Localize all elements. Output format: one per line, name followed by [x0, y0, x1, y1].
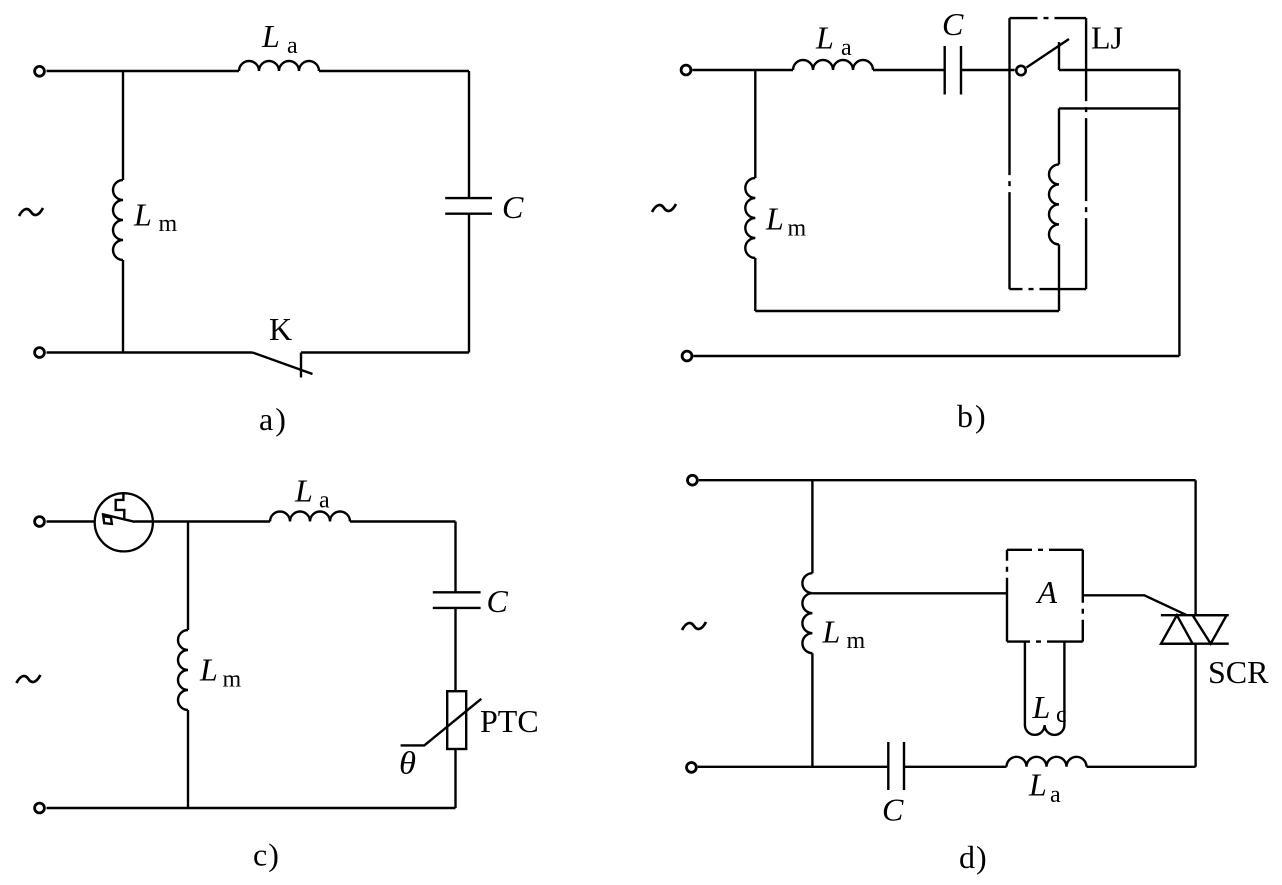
switch K (a) [253, 353, 313, 378]
wire [122, 260, 124, 353]
wire [755, 310, 1059, 312]
AC source tilde (b) [652, 204, 676, 212]
terminal b-bottom [682, 351, 692, 361]
wire [1194, 644, 1196, 767]
wire right rail (b) [1178, 70, 1180, 356]
wire [350, 520, 456, 522]
wire [187, 522, 189, 631]
wire [754, 70, 756, 178]
inductor La (b) [793, 60, 873, 70]
inductor La (a) [239, 61, 319, 71]
inductor Lm (d) [802, 573, 812, 653]
wire [47, 807, 456, 809]
AC source tilde (c) [16, 675, 40, 683]
svg-text:L: L [133, 197, 152, 233]
svg-text:LJ: LJ [1091, 20, 1123, 56]
relay contact switch (b) [1016, 39, 1069, 75]
svg-text:m: m [847, 628, 866, 654]
wire [1194, 480, 1196, 615]
svg-text:θ: θ [399, 745, 416, 781]
wire gate [1083, 595, 1187, 615]
terminal b-top [681, 65, 691, 75]
terminal d-bottom [687, 763, 697, 773]
wire [905, 766, 1007, 768]
wire [1087, 766, 1196, 768]
svg-text:K: K [269, 311, 292, 347]
wire [754, 258, 756, 311]
inductor La (c) [270, 512, 350, 522]
svg-text:d): d) [959, 839, 988, 875]
wire [454, 749, 456, 808]
wire [47, 520, 95, 522]
svg-text:m: m [159, 211, 178, 237]
svg-text:C: C [882, 792, 904, 828]
wire [319, 70, 469, 72]
AC source tilde (d) [682, 622, 706, 630]
PTC thermistor (c) [401, 691, 482, 749]
wire [468, 71, 470, 198]
triac SCR (d) [1161, 615, 1229, 644]
svg-text:c: c [1056, 702, 1067, 728]
wire [122, 71, 124, 180]
wire [698, 766, 888, 768]
wire [454, 522, 456, 593]
terminal a-top [35, 66, 45, 76]
wire [301, 351, 469, 353]
svg-text:a: a [287, 33, 298, 59]
svg-text:a: a [319, 488, 330, 514]
wire [692, 69, 793, 71]
wire [962, 69, 1015, 71]
svg-text:SCR: SCR [1208, 654, 1269, 690]
wire [454, 608, 456, 691]
wire [134, 520, 270, 522]
wire [812, 592, 1007, 594]
svg-text:L: L [199, 652, 218, 688]
wire [873, 69, 944, 71]
svg-text:A: A [1036, 574, 1058, 610]
terminal a-bottom [35, 348, 45, 358]
svg-text:L: L [1032, 689, 1051, 725]
inductor Lm (b) [745, 178, 755, 258]
wire [468, 214, 470, 353]
svg-text:L: L [815, 20, 834, 56]
wire [1059, 69, 1179, 71]
capacitor C (a) [445, 198, 492, 214]
capacitor C (d) [888, 742, 904, 790]
svg-text:a: a [841, 35, 852, 61]
wire [1059, 107, 1179, 109]
centrifugal switch (c) [95, 493, 153, 551]
wire [1058, 108, 1060, 164]
svg-text:m: m [788, 216, 807, 242]
wire [811, 480, 813, 573]
svg-text:L: L [822, 613, 841, 649]
capacitor C (b) [945, 46, 961, 95]
wire [811, 653, 813, 767]
svg-text:b): b) [957, 398, 988, 434]
inductor Lm (c) [178, 630, 188, 710]
capacitor C (c) [433, 592, 481, 608]
terminal c-bottom [35, 803, 45, 813]
svg-text:a): a) [259, 401, 288, 437]
relay coil LJ (b) [1049, 164, 1059, 244]
svg-text:L: L [294, 473, 313, 509]
AC source tilde (a) [19, 208, 43, 216]
wire [47, 351, 253, 353]
inductor Lm (a) [113, 180, 123, 260]
svg-text:m: m [223, 667, 242, 693]
svg-text:PTC: PTC [480, 703, 539, 739]
wire [1058, 244, 1060, 311]
svg-text:L: L [1028, 766, 1047, 802]
svg-text:L: L [765, 201, 784, 237]
svg-text:C: C [942, 6, 964, 42]
sensing coil Lc (d) [1025, 642, 1065, 735]
svg-text:C: C [487, 583, 509, 619]
terminal d-top [688, 475, 698, 485]
svg-text:L: L [261, 18, 280, 54]
wire [187, 710, 189, 808]
wire [693, 355, 1179, 357]
amplifier box A dash-dot (d) [1007, 550, 1083, 642]
svg-text:a: a [1050, 782, 1061, 808]
svg-text:C: C [502, 189, 524, 225]
wire [699, 479, 1196, 481]
svg-text:c): c) [253, 837, 280, 873]
wire [47, 70, 240, 72]
relay box LJ dash-dot (b) [1010, 18, 1087, 289]
terminal c-top [35, 517, 45, 527]
inductor La (d) [1007, 757, 1087, 767]
